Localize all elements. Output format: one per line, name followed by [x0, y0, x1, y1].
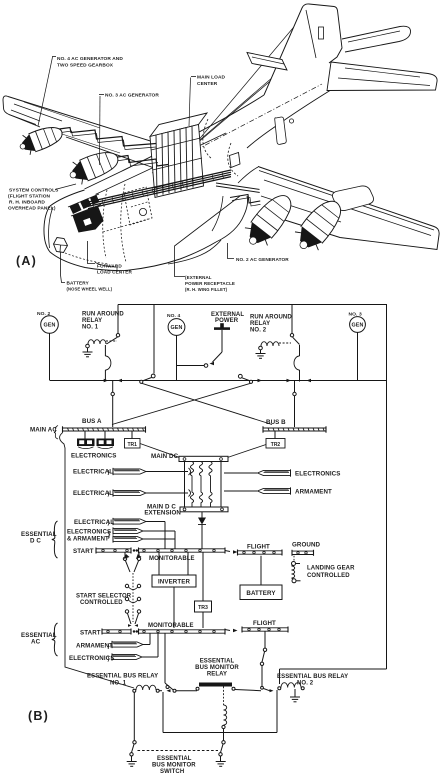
svg-text:ELECTRONICS: ELECTRONICS: [71, 453, 116, 460]
svg-text:OVERHEAD PANEL): OVERHEAD PANEL): [8, 206, 56, 212]
svg-text:MAIN DC: MAIN DC: [151, 453, 179, 460]
svg-text:MAIN LOAD: MAIN LOAD: [197, 75, 226, 81]
svg-text:RELAY: RELAY: [82, 318, 102, 324]
svg-text:CONTROLLED: CONTROLLED: [307, 573, 350, 579]
svg-text:START: START: [73, 548, 94, 555]
svg-text:(EXTERNAL: (EXTERNAL: [185, 275, 212, 280]
svg-text:(A): (A): [16, 254, 37, 268]
svg-text:NO. 1: NO. 1: [82, 325, 99, 331]
svg-text:ESSENTIAL: ESSENTIAL: [157, 756, 192, 762]
svg-text:RELAY: RELAY: [250, 321, 270, 327]
svg-text:ESSENTIAL: ESSENTIAL: [200, 659, 235, 665]
svg-text:ESSENTIAL BUS RELAY: ESSENTIAL BUS RELAY: [277, 674, 348, 680]
svg-text:START SELECTOR: START SELECTOR: [76, 594, 132, 600]
svg-text:BATTERY: BATTERY: [67, 281, 90, 286]
svg-text:BUS MONITOR: BUS MONITOR: [195, 665, 239, 671]
svg-text:NO. 4 AC GENERATOR AND: NO. 4 AC GENERATOR AND: [57, 56, 123, 62]
svg-text:INVERTER: INVERTER: [158, 579, 191, 586]
svg-text:START: START: [80, 630, 101, 637]
svg-text:POWER RECEPTACLE: POWER RECEPTACLE: [185, 281, 235, 286]
svg-text:ESSENTIAL BUS RELAY: ESSENTIAL BUS RELAY: [87, 674, 158, 680]
svg-text:R. H. INBOARD: R. H. INBOARD: [9, 200, 45, 206]
svg-text:FORWARD: FORWARD: [97, 264, 122, 269]
svg-text:GEN: GEN: [44, 323, 56, 329]
svg-text:GEN: GEN: [352, 323, 364, 329]
svg-text:TR2: TR2: [271, 442, 281, 448]
svg-text:BUS B: BUS B: [266, 419, 286, 426]
svg-text:LOAD CENTER: LOAD CENTER: [97, 270, 132, 275]
svg-text:BATTERY: BATTERY: [246, 590, 276, 597]
svg-text:MAIN AC: MAIN AC: [30, 427, 57, 434]
svg-text:FLIGHT: FLIGHT: [253, 620, 276, 627]
svg-text:SYSTEM CONTROLS: SYSTEM CONTROLS: [9, 188, 59, 194]
svg-text:TR1: TR1: [127, 442, 137, 448]
svg-text:BUS MONITOR: BUS MONITOR: [152, 763, 196, 769]
svg-text:& ARMAMENT: & ARMAMENT: [67, 537, 109, 543]
svg-text:NO. 3 AC GENERATOR: NO. 3 AC GENERATOR: [105, 93, 159, 99]
svg-text:GEN: GEN: [171, 325, 183, 331]
svg-text:MONITORABLE: MONITORABLE: [148, 623, 194, 629]
svg-text:NO. 4: NO. 4: [167, 313, 180, 319]
svg-text:ELECTRONICS: ELECTRONICS: [295, 471, 340, 478]
svg-text:ELECTRONICS: ELECTRONICS: [67, 530, 111, 536]
svg-text:}: }: [108, 530, 111, 539]
svg-text:(B): (B): [28, 709, 49, 723]
svg-text:ARMAMENT: ARMAMENT: [295, 489, 332, 496]
svg-text:SWITCH: SWITCH: [160, 769, 184, 775]
svg-text:EXTENSION: EXTENSION: [144, 510, 181, 517]
svg-text:BUS A: BUS A: [82, 418, 102, 425]
svg-text:D C: D C: [30, 538, 41, 545]
svg-text:CENTER: CENTER: [197, 81, 218, 87]
svg-text:RUN AROUND: RUN AROUND: [250, 315, 292, 321]
svg-text:(FLIGHT STATION: (FLIGHT STATION: [8, 194, 51, 200]
svg-text:TWO SPEED GEARBOX: TWO SPEED GEARBOX: [57, 63, 114, 69]
svg-text:TR3: TR3: [198, 605, 208, 611]
svg-text:NO. 1: NO. 1: [110, 681, 127, 687]
svg-text:NO. 2: NO. 2: [250, 328, 267, 334]
svg-text:POWER: POWER: [215, 318, 239, 324]
svg-text:(NOSE WHEEL WELL): (NOSE WHEEL WELL): [67, 287, 113, 292]
svg-text:AC: AC: [31, 639, 41, 646]
svg-text:FLIGHT: FLIGHT: [247, 544, 270, 551]
svg-text:RELAY: RELAY: [207, 672, 227, 678]
svg-text:CONTROLLED: CONTROLLED: [80, 600, 123, 606]
svg-text:GROUND: GROUND: [292, 542, 321, 549]
svg-text:(R. H. WING FILLET): (R. H. WING FILLET): [185, 287, 228, 292]
svg-text:NO. 2 AC GENERATOR: NO. 2 AC GENERATOR: [236, 257, 289, 262]
svg-text:LANDING GEAR: LANDING GEAR: [307, 566, 355, 572]
